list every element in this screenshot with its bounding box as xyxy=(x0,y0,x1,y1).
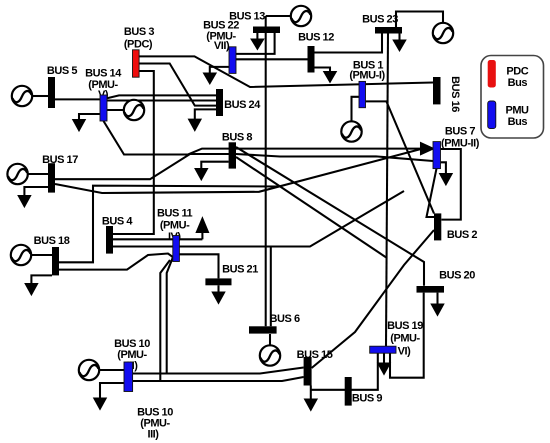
bus BUS12 xyxy=(308,46,315,73)
bus BUS8 xyxy=(229,142,236,168)
svg-text:Bus: Bus xyxy=(508,116,528,128)
wire BUS18 to BUS11 xyxy=(59,254,173,270)
svg-text:PMU: PMU xyxy=(505,104,529,116)
load arrow BUS24 xyxy=(195,109,216,120)
wire BUS2 to BUS15 diagonal xyxy=(312,230,434,368)
bus BUS3 (PDC, red) xyxy=(133,50,140,77)
wire BUS6 riser xyxy=(270,247,272,327)
bus BUS20 xyxy=(417,286,445,293)
generator G13 xyxy=(291,6,311,26)
load arrow BUS15 xyxy=(310,386,312,401)
generator G5 xyxy=(12,86,32,106)
bus BUS5 xyxy=(48,77,55,108)
wire gen17 to BUS17 xyxy=(28,173,48,175)
wire BUS7 loop to BUS2 xyxy=(441,149,461,220)
wire BUS18 rectangle line xyxy=(59,186,282,263)
wire BUS19 to BUS20 loop xyxy=(390,293,424,378)
wire BUS19 to BUS9 xyxy=(311,353,378,390)
bus BUS22 (PMU-VII, blue) xyxy=(229,47,236,74)
wire BUS14 to BUS24 lower xyxy=(107,99,216,101)
wire BUS7 to BUS2 xyxy=(427,169,437,217)
svg-text:BUS 19: BUS 19 xyxy=(387,320,423,332)
svg-text:(PMU-: (PMU- xyxy=(160,220,190,232)
bus BUS9 xyxy=(345,377,352,406)
svg-text:BUS 18: BUS 18 xyxy=(34,235,70,247)
wire BUS4 long line right xyxy=(113,191,404,247)
svg-text:BUS 16: BUS 16 xyxy=(449,76,461,112)
wire BUS10 to BUS15 upper xyxy=(133,368,304,374)
wire BUS14 to BUS24 upper xyxy=(107,95,216,98)
svg-text:(PDC): (PDC) xyxy=(124,39,153,51)
wire BUS3 to BUS4 vertical xyxy=(113,71,154,234)
wire gen14 to BUS14 xyxy=(107,109,124,111)
wire gen1 loop to BUS1 xyxy=(352,97,360,122)
bus BUS16 xyxy=(433,77,441,104)
svg-text:BUS 24: BUS 24 xyxy=(224,99,261,111)
bus BUS6 xyxy=(249,326,277,333)
bus BUS17 xyxy=(48,163,55,192)
svg-text:BUS 9: BUS 9 xyxy=(352,392,382,404)
bus BUS13 xyxy=(253,27,280,34)
generator G10 xyxy=(79,360,99,380)
wire gen13 to BUS13 xyxy=(266,15,291,17)
wire gen5 to BUS5 xyxy=(33,95,49,97)
bus BUS10 (PMU-III, blue) xyxy=(124,362,133,392)
ARROWS (loads) xyxy=(19,33,452,410)
load arrow BUS20 xyxy=(436,293,438,305)
wire BUS22 to BUS12 xyxy=(236,58,308,60)
legend PMU swatch xyxy=(488,101,496,129)
wire gen6 to BUS6 xyxy=(269,334,271,345)
svg-text:BUS 6: BUS 6 xyxy=(270,313,300,325)
bus BUS4 xyxy=(106,226,113,254)
svg-text:(PMU-: (PMU- xyxy=(117,349,147,361)
bus BUS21 xyxy=(205,278,231,285)
bus BUS19 (PMU-VI, blue) xyxy=(370,346,396,353)
svg-text:BUS 7: BUS 7 xyxy=(445,126,475,138)
svg-text:BUS 5: BUS 5 xyxy=(47,65,77,77)
load arrow BUS22 xyxy=(210,67,229,75)
wire BUS23 to BUS19 long vertical xyxy=(386,34,388,347)
load arrow BUS17 xyxy=(24,187,48,197)
wire BUS11 down left vertical xyxy=(167,258,173,374)
load arrow BUS13 xyxy=(256,33,258,40)
wire BUS1 to BUS2 xyxy=(366,101,435,213)
bus BUS24 xyxy=(216,89,223,116)
up arrow BUS11 xyxy=(201,231,203,239)
load arrow BUS8 xyxy=(201,162,228,170)
bus BUS11 (PMU-IV, blue) xyxy=(173,236,180,262)
wire BUS14 to BUS8 xyxy=(104,121,422,155)
svg-text:(PMU-: (PMU- xyxy=(88,79,118,91)
wire BUS5 to BUS14 xyxy=(55,98,100,100)
generator G6 xyxy=(260,345,280,365)
legend box xyxy=(481,56,544,139)
wire BUS17 diagonal to BUS7 arrow xyxy=(55,149,420,193)
wire BUS3 to BUS1/BUS16 (line A) xyxy=(140,56,434,87)
wire gen23 loop to BUS23 xyxy=(396,12,443,28)
svg-text:BUS 2: BUS 2 xyxy=(447,229,477,241)
wire BUS8 descending diagonal to BUS20 xyxy=(236,147,424,286)
wire BUS8 descending diagonal to vertical xyxy=(236,157,387,258)
svg-text:BUS 4: BUS 4 xyxy=(102,215,133,227)
load arrow BUS23 xyxy=(398,34,400,42)
svg-text:BUS 10: BUS 10 xyxy=(137,406,173,418)
generator G17 xyxy=(7,164,27,184)
svg-text:(PMU-I): (PMU-I) xyxy=(349,70,385,82)
load arrow BUS19 xyxy=(383,353,385,364)
wire BUS11 down right vertical xyxy=(160,260,170,381)
wire BUS12 to BUS23 xyxy=(315,34,383,53)
wire BUS22 to BUS13 xyxy=(236,33,275,54)
wire gen10 to BUS10 xyxy=(100,369,125,371)
wire BUS17 to BUS8/BUS7 xyxy=(55,154,236,179)
svg-text:BUS 12: BUS 12 xyxy=(298,32,334,44)
load arrow BUS12 xyxy=(315,68,331,74)
svg-text:(PMU-: (PMU- xyxy=(390,332,420,344)
svg-text:BUS 8: BUS 8 xyxy=(222,132,252,144)
svg-text:VI): VI) xyxy=(398,346,411,358)
bus BUS23 xyxy=(375,27,402,34)
svg-text:(PMU-II): (PMU-II) xyxy=(441,138,480,150)
svg-text:Bus: Bus xyxy=(508,77,528,89)
load arrow BUS21 xyxy=(217,285,219,293)
wire BUS10 to BUS15 lower xyxy=(133,377,304,381)
generator G1 xyxy=(341,121,361,141)
generator G18 xyxy=(11,245,31,265)
svg-text:BUS 17: BUS 17 xyxy=(42,154,78,166)
wire BUS3 to BUS24 (line B) xyxy=(140,64,217,106)
bus BUS15 xyxy=(304,357,312,386)
bus BUS7 (PMU-II, blue) xyxy=(433,142,441,169)
svg-text:BUS 15: BUS 15 xyxy=(297,349,333,361)
bus BUS14 (PMU-V, blue) xyxy=(100,95,107,121)
svg-text:VII): VII) xyxy=(214,40,230,52)
bus BUS18 xyxy=(52,247,59,275)
wire gen18 to BUS18 xyxy=(32,254,53,256)
wire BUS4 to BUS11/up arrow xyxy=(113,238,202,240)
load arrow BUS14 xyxy=(79,114,100,122)
svg-text:BUS 14: BUS 14 xyxy=(85,68,122,80)
flow arrow into BUS7 (points right) xyxy=(421,143,433,154)
svg-text:III): III) xyxy=(147,429,159,441)
svg-text:PDC: PDC xyxy=(506,66,528,78)
svg-text:BUS 3: BUS 3 xyxy=(124,26,154,38)
load arrow BUS10 xyxy=(100,383,124,399)
svg-text:BUS 20: BUS 20 xyxy=(439,270,475,282)
svg-text:BUS 23: BUS 23 xyxy=(362,14,398,26)
bus BUS1 (PMU-I, blue) xyxy=(359,81,366,107)
wire BUS11 to BUS21 xyxy=(179,254,218,278)
svg-text:BUS 21: BUS 21 xyxy=(222,263,258,275)
load arrow BUS7 right xyxy=(441,162,446,174)
wire central vertical BUS13 to BUS6 xyxy=(265,16,267,326)
bus BUS2 xyxy=(434,213,441,240)
generator G23 xyxy=(433,23,453,43)
generator G14 xyxy=(124,100,144,120)
svg-text:BUS 11: BUS 11 xyxy=(157,208,193,220)
legend PDC swatch xyxy=(488,60,496,88)
load arrow BUS18 xyxy=(31,275,52,284)
